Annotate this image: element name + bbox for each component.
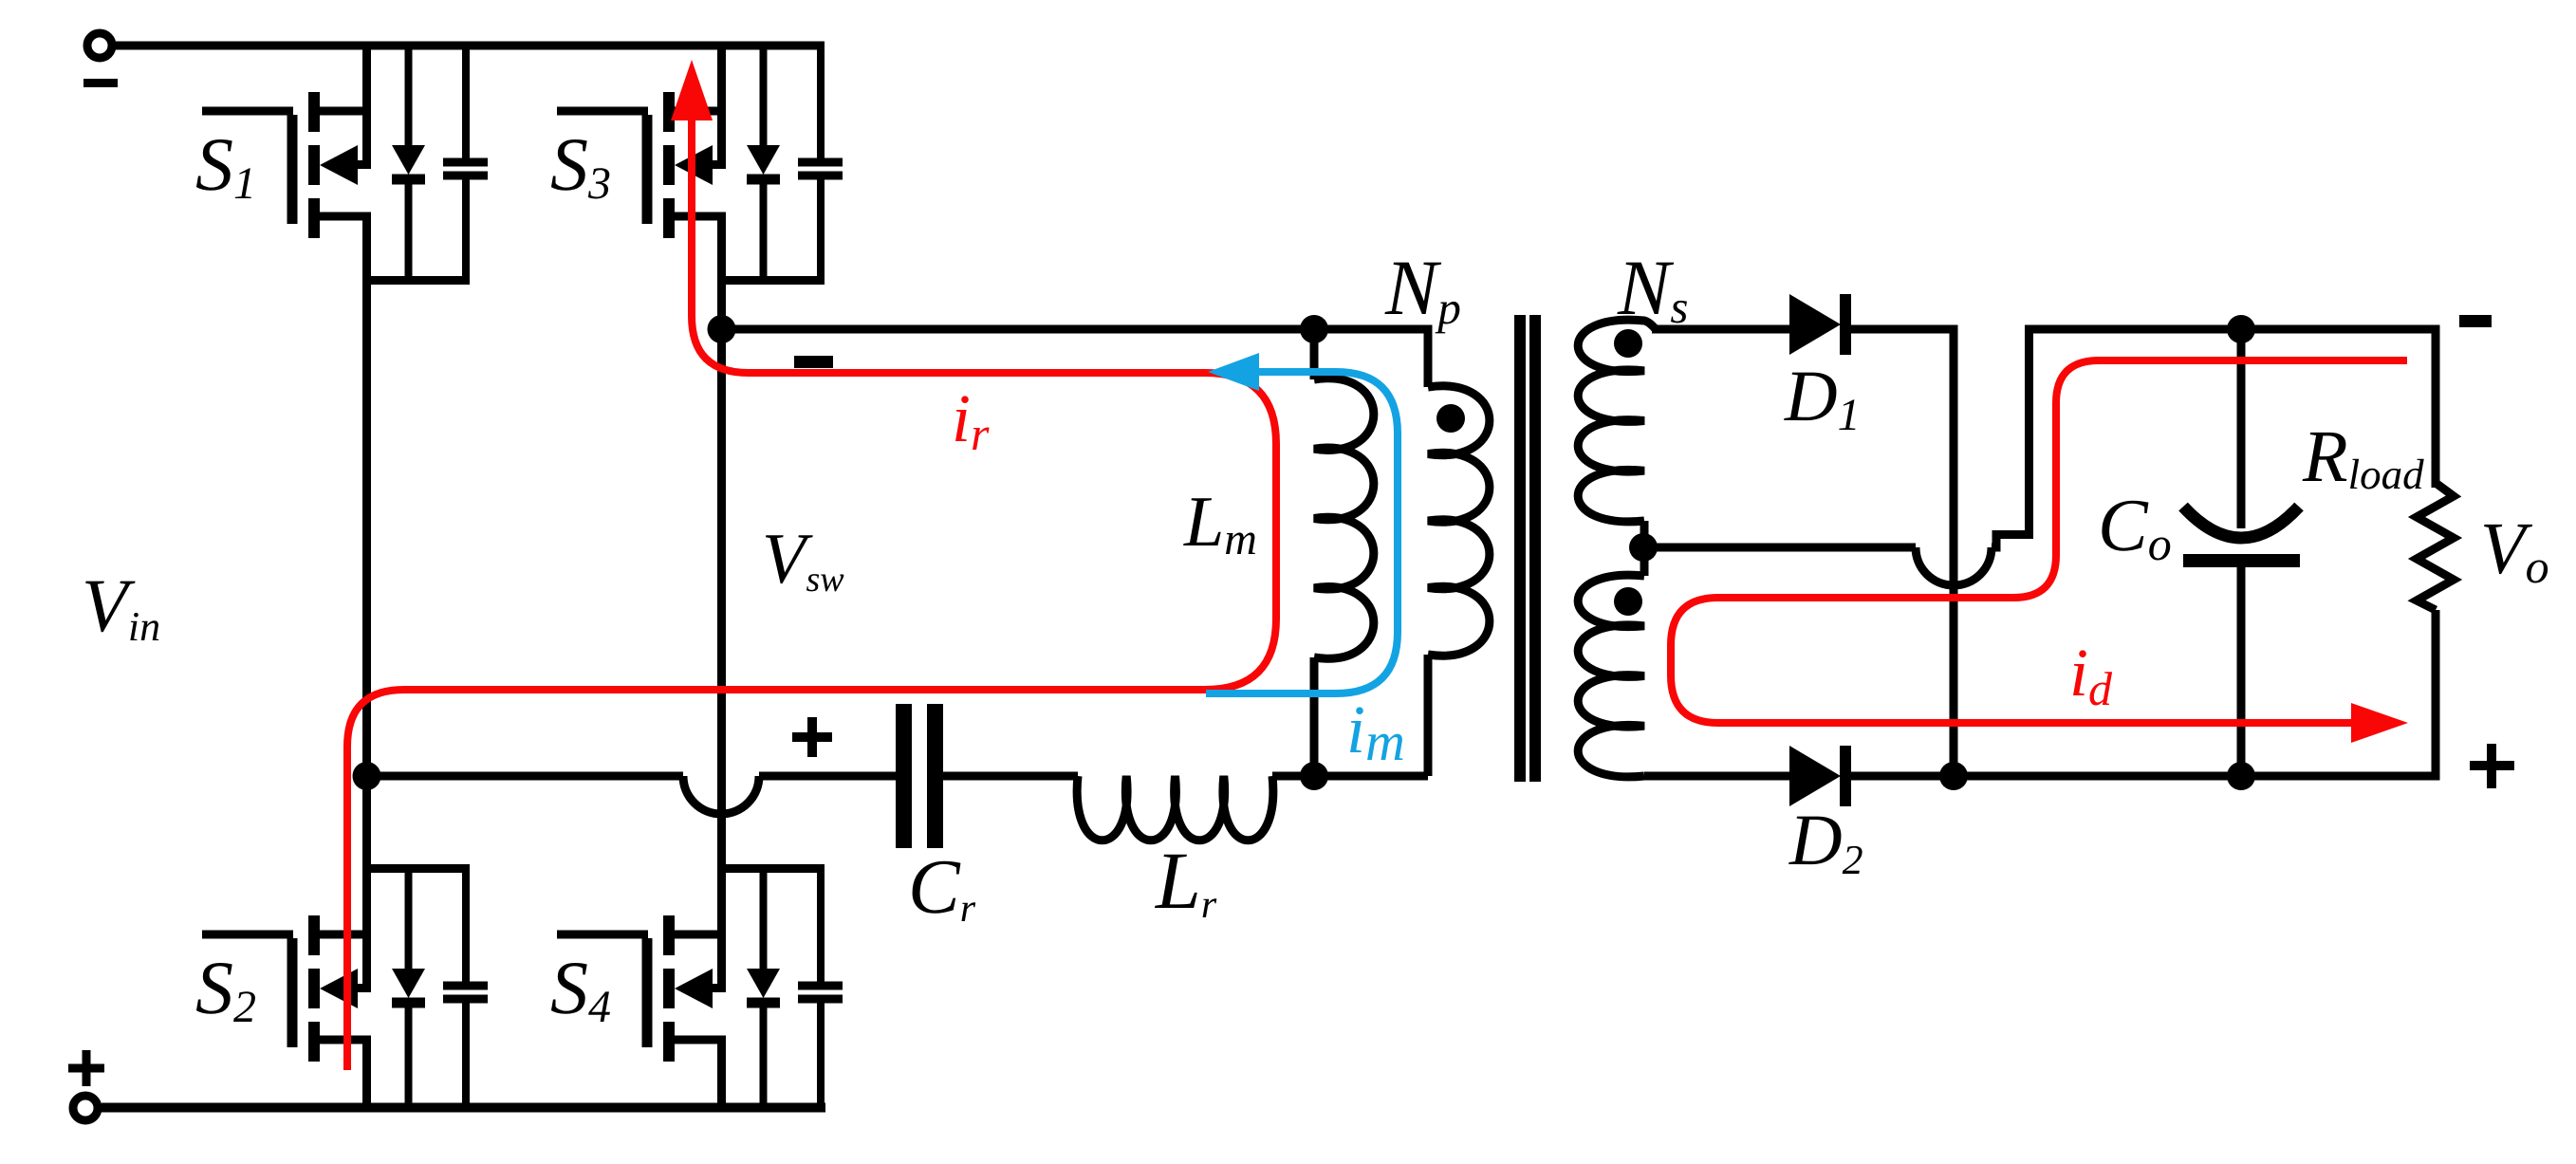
label S1 [195, 123, 256, 209]
wire center tap jog [1992, 535, 2033, 548]
label Vin [82, 564, 160, 650]
wire Lm top lead [1310, 329, 1319, 379]
wire hop over diode line [1916, 547, 1992, 585]
diode D1 [1789, 294, 1851, 355]
wire center tap line [1657, 544, 1916, 552]
label Lm [1183, 482, 1257, 564]
polarity + output [2470, 744, 2514, 788]
wire Lm bottom lead [1310, 657, 1319, 776]
junction node D1/D2 cathodes [1939, 762, 1968, 790]
polarity dot secondary lower [1614, 587, 1642, 616]
input terminal (top, -) [83, 33, 118, 87]
transformer core [1514, 315, 1541, 782]
label S3 [550, 123, 611, 209]
junction node right leg / primary top rail [708, 315, 736, 343]
junction node primary bottom / Lm [1300, 762, 1328, 790]
input terminal (bottom, +) [68, 1050, 104, 1120]
label S2 [195, 947, 256, 1032]
current path ir (red loop) [347, 60, 1276, 1070]
wire right bridge leg [717, 280, 726, 869]
capacitor Cr [896, 704, 943, 848]
label Lr [1154, 835, 1217, 927]
label Cr [908, 843, 976, 931]
winding Ns lower (transformer secondary) [1578, 575, 1644, 777]
label Rload [2302, 415, 2424, 498]
label ir [952, 380, 990, 460]
label Ns [1617, 244, 1688, 333]
diode D2 [1789, 746, 1851, 806]
inductor Lm [1314, 379, 1374, 658]
wire primary bottom lead [1424, 655, 1433, 776]
wire Co bottom lead [2237, 567, 2246, 776]
winding Ns upper (transformer secondary) [1578, 320, 1656, 522]
label D2 [1788, 799, 1863, 883]
wire center tap riser [2025, 329, 2033, 534]
polarity dot secondary upper [1614, 329, 1642, 358]
wire hop over right leg [683, 776, 759, 814]
polarity dot primary [1436, 404, 1465, 433]
polarity - of Vsw [794, 356, 833, 368]
wire Cr to Lr [943, 772, 1078, 781]
label id [2069, 635, 2113, 715]
wire switch node rail to primary top [722, 325, 1429, 334]
wire lower resonant rail (left) [367, 772, 684, 781]
capacitor Co curved plate [2183, 507, 2299, 538]
label Vsw [762, 519, 844, 600]
junction node center tap [1629, 533, 1658, 562]
junction node Co top [2227, 315, 2255, 343]
resistor Rload [2417, 483, 2454, 610]
wire left bridge leg [362, 280, 371, 869]
wire bottom input rail [102, 1103, 825, 1113]
capacitor Co flat plate [2183, 554, 2300, 567]
polarity + of Vsw [792, 717, 832, 757]
transistor S2 (MOSFET with body diode and capacitor) [202, 869, 488, 1109]
wire output plus corner [2435, 610, 2437, 776]
junction node Co bottom [2227, 762, 2255, 790]
wire center tap stub [1640, 521, 1649, 576]
wire output plus rail [1851, 772, 2440, 781]
junction node primary top / Lm [1300, 315, 1328, 343]
wire Co top lead [2237, 329, 2246, 528]
label S4 [550, 947, 611, 1032]
transistor S4 (MOSFET with body diode and capacitor) [557, 869, 843, 1109]
transistor S3 (MOSFET with body diode and capacitor) [557, 46, 843, 281]
label D1 [1784, 355, 1861, 440]
winding Np (transformer primary) [1428, 386, 1490, 656]
inductor Lr [1077, 776, 1273, 841]
current path id (red) [1671, 360, 2408, 743]
transistor S1 (MOSFET with body diode and capacitor) [202, 46, 488, 281]
wire top input rail [112, 42, 825, 50]
wire secondary top rail [1652, 325, 1789, 334]
label Np [1384, 244, 1461, 334]
wire primary top lead [1424, 325, 1433, 388]
label Co [2098, 485, 2172, 570]
wire Rload bottom [2432, 610, 2440, 781]
wire D1 cathode to corner [1851, 329, 1954, 776]
wire output minus corner [2432, 325, 2440, 489]
current path im (blue loop) [1206, 353, 1398, 693]
label Vo [2480, 507, 2549, 593]
polarity - output [2459, 315, 2492, 327]
wire output minus rail [2025, 325, 2440, 334]
wire lower resonant rail (to Cr) [759, 772, 896, 781]
junction node left leg / resonant rail [353, 762, 381, 790]
label im [1346, 692, 1405, 772]
wire Lr to primary bottom [1272, 772, 1428, 781]
wire secondary bottom rail [1644, 772, 1789, 781]
